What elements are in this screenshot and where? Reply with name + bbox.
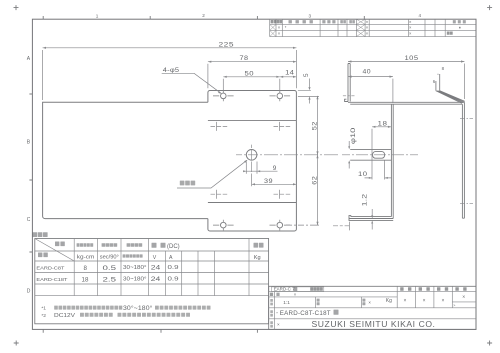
svg-text:18: 18 [82,276,89,283]
zone labels top [96,13,422,18]
x marks in revision rows [278,19,412,36]
diagonal header cell [35,239,74,262]
unit rotation angle note (tiny) [123,254,143,257]
data row 1 EARD-C8T [36,266,64,272]
zone letters left edge [27,56,31,295]
svg-text:×: × [404,298,407,304]
revision table grid [270,19,476,36]
svg-text:*1: *1 [41,306,46,312]
dim 40 [348,77,393,103]
top flange (side view) [348,102,464,104]
svg-text:EARD-C8T: EARD-C8T [36,266,64,272]
angled tab (rotating cam tab) [436,74,465,103]
svg-text:2: 2 [202,13,205,18]
svg-text:φ10: φ10 [350,127,357,144]
dim 18 slot [372,127,391,180]
note line 2 [41,313,46,319]
right cell small dot [459,27,461,29]
svg-text:>: > [453,304,455,308]
header tanto (blobs) [340,20,346,23]
revision header kanji (blob) [271,20,282,23]
label output shaft (shutsuryokujiku) with leader [180,181,195,186]
spec table vertical lines [74,239,249,296]
output hole vertical centerline [251,145,253,172]
side view centerline [342,154,418,156]
revision symbol column hatches [270,19,365,36]
row1 inner material label (blobs) [310,287,323,291]
part name row [276,311,278,316]
left flange bottom lip [345,99,348,101]
right wall = main plate edge-on [462,102,464,218]
dim 225 [43,48,297,100]
corner crop mark bottom-left [14,341,19,346]
svg-text:8: 8 [84,265,88,272]
bottom tab outline [208,203,297,232]
hole bottom-left phi5 [213,220,234,231]
data row 2 EARD-C18T [36,277,67,283]
header nengappi (blobs) [322,20,335,23]
zone ticks bottom edge [43,329,257,332]
scale 1:1 [283,300,290,306]
katashiki label in diagonal cell (blobs) [38,253,48,258]
svg-text:9: 9 [273,165,277,172]
svg-text:×: × [368,300,371,305]
hole bottom-right phi5 [270,220,291,231]
left flange (side view) [348,64,350,102]
center mark row2 left [211,122,228,131]
header mass (blobs) [254,243,264,248]
dim 52 [317,96,319,155]
inner wall (bent tab 78) [391,104,393,218]
right header sakuseisha (blobs) [453,20,466,23]
zone ticks left edge [29,94,32,252]
row2 tiny labels [270,293,280,296]
svg-text:A: A [169,255,173,261]
svg-text:4: 4 [419,13,422,18]
svg-text:EARD-C18T: EARD-C18T [36,277,67,283]
hole row mark bottom (cross) [333,222,350,231]
row1 series name [274,287,295,292]
output hole horizontal centerline [236,154,338,156]
dim 105 [348,62,464,100]
shiyou label in diagonal cell (blobs) [55,242,65,247]
bend position marks on right wall [460,119,473,204]
svg-text:1: 1 [96,14,99,19]
hole top-left phi5 [213,91,234,102]
hole row mark top (cross) [343,91,355,101]
spec table horizontal lines [35,251,269,296]
center mark row3 right [274,190,291,199]
svg-text:1.2: 1.2 [362,193,368,206]
header rotation angle (blobs) [127,243,143,246]
title block outer [269,286,476,329]
zone ticks top edge [43,16,364,19]
title block vertical lines [275,286,476,329]
svg-text:EARD-C8T-C18T: EARD-C8T-C18T [280,310,331,317]
units row [77,255,261,261]
svg-text:30~180°: 30~180° [123,277,147,283]
header rotation time (blobs) [102,243,118,246]
label 4-phi5 with leader [163,67,180,74]
svg-text:24: 24 [151,265,161,272]
svg-text:Kg: Kg [386,298,392,304]
top tab bend line [208,119,297,121]
svg-text:(DC): (DC) [167,244,180,250]
dim 5 right side [298,79,319,104]
material label stacked (blobs) [317,299,320,306]
svg-text:5: 5 [303,73,310,77]
dim 10 slot [365,161,393,180]
svg-text:V: V [153,255,157,261]
spec box outer [35,239,269,324]
approval headers (blobs) [400,287,466,291]
corner crop mark top-right [487,5,492,10]
svg-text:0.9: 0.9 [168,277,179,283]
svg-text:14: 14 [285,69,294,76]
mass label stacked (blobs) + x + Kg [362,299,365,306]
header teisei-kiji (blobs) [289,20,313,23]
right cell kakunin blob [447,32,453,35]
svg-text:62: 62 [311,176,318,185]
dim 9 output hole [244,162,277,174]
slot 10x7 [373,152,385,159]
svg-text:30°~180°: 30°~180° [123,306,153,312]
svg-text:50: 50 [245,70,255,77]
svg-text:4-φ5: 4-φ5 [163,67,180,74]
svg-text:Kg: Kg [254,255,261,261]
dim 62 [286,155,319,225]
svg-text:×: × [277,322,280,327]
header power DC [152,243,166,248]
tiny labels near angled tab [433,66,445,84]
corner crop mark top-left [14,5,19,10]
svg-text:78: 78 [240,55,249,62]
svg-text:24: 24 [151,276,161,283]
svg-text:39: 39 [264,178,273,185]
svg-text:EARD-C 7: EARD-C 7 [274,287,295,292]
svg-text:C: C [27,217,31,223]
svg-text:×: × [442,298,445,304]
hole top-right phi5 [270,91,291,102]
svg-text:18: 18 [378,120,388,127]
dim 78 [208,62,297,89]
dim 1.2 thickness [371,209,373,230]
svg-text:225: 225 [219,41,235,48]
company name row [277,322,280,327]
dim 14 [280,76,297,78]
corner crop mark bottom-right [487,341,492,346]
svg-text:D: D [27,289,31,295]
header output torque (blobs) [77,243,94,246]
part outline main plate [43,102,208,218]
approval x marks [404,295,466,308]
drawing frame [32,19,476,329]
svg-text:DC12V: DC12V [54,313,75,319]
svg-text:*2: *2 [41,313,46,319]
svg-text:30~180°: 30~180° [123,265,147,271]
header kenin (blobs) [349,20,355,23]
svg-text:sec/90°: sec/90° [100,255,119,261]
left narrow column labels (blobs) [270,299,273,328]
bottom foot (side view) [349,216,393,221]
svg-text:40: 40 [363,69,372,76]
row1 inner box [271,287,323,292]
top tab outline [208,91,297,121]
svg-text:0.5: 0.5 [103,265,117,272]
title block horizontal lines [269,292,476,319]
dim 50 [223,77,279,92]
center mark row3 left [211,190,228,199]
svg-text:10: 10 [358,171,368,178]
svg-text:3: 3 [309,13,312,18]
svg-text:×: × [423,298,426,304]
note line 1 [41,306,46,312]
svg-text:2.5: 2.5 [103,276,117,283]
dim 39 [252,174,297,187]
svg-text:1:1: 1:1 [283,300,290,306]
phi10 hole projection lines [350,149,391,160]
svg-text:×: × [462,295,465,301]
output shaft hole phi9 [246,150,257,161]
spec table label (shiyouhyou) [33,232,48,237]
svg-text:SUZUKI SEIMITU KIKAI CO.: SUZUKI SEIMITU KIKAI CO. [312,320,436,329]
bottom tab bend line [208,202,297,204]
dim phi10 [348,141,350,169]
right edge of plate [295,120,297,202]
svg-text:0.9: 0.9 [168,265,179,271]
center mark row2 right [274,122,291,131]
svg-text:52: 52 [311,121,318,130]
svg-text:kg-cm: kg-cm [77,255,95,261]
svg-text:105: 105 [405,55,419,62]
